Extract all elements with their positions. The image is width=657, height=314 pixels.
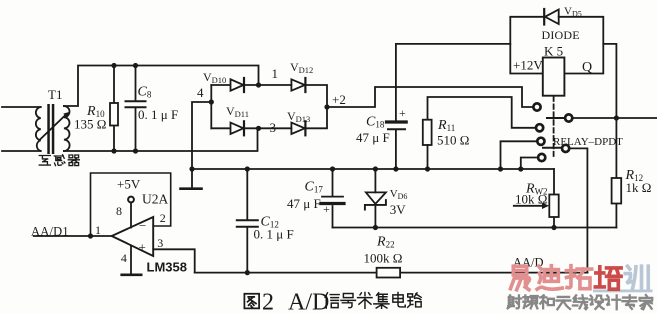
diode VD5 flyback loop box [510,17,603,74]
node dot C18 bottom [393,166,398,171]
op-amp U2A triangle [112,217,154,256]
relay contact circle 3 [501,138,545,169]
node dot C12 top [245,166,250,171]
svg-text:RELAY–DPDT: RELAY–DPDT [553,136,623,148]
transformer T1 core [47,104,54,154]
relay contact circle 1 [533,103,540,110]
wire common2 down to AA/D line [570,148,588,272]
wire R11 top to relay contact 2 [428,97,536,128]
diode VD11 [211,121,258,135]
wire op-amp pin4 to ground [130,246,132,275]
svg-text:+: + [139,240,146,255]
wire op-amp output AA/D1 [34,235,112,237]
zener diode VD6 [365,169,386,228]
svg-text:10k Ω: 10k Ω [515,192,547,207]
watermark she-pin-he-tian-xian-she-ji-zhuan-jia (RF and antenna design experts) [508,295,653,309]
svg-text:DIODE: DIODE [542,28,580,42]
node dot op-amp output [88,233,93,238]
wire 3V node horizontal [333,227,617,229]
diode VD13 [259,107,328,135]
svg-text:135 Ω: 135 Ω [74,117,106,132]
svg-text:510 Ω: 510 Ω [437,133,469,148]
relay contact circle 2 [536,124,543,131]
svg-text:1k Ω: 1k Ω [626,180,652,195]
svg-text:0. 1 μ F: 0. 1 μ F [138,107,178,122]
svg-text:47 μ F: 47 μ F [356,130,390,145]
svg-text:3: 3 [157,236,163,250]
diode VD12 [259,78,328,107]
op-amp U2A feedback loop wire [91,173,171,236]
node dot R10 top [111,63,116,68]
svg-text:1: 1 [95,223,101,237]
node dot VD6 top [373,166,378,171]
wire primary top lead [2,106,41,108]
svg-text:U2A: U2A [142,191,168,206]
wire secondary top to top rail [64,66,259,107]
node dot C8 top [133,63,138,68]
node +2 dot [324,104,329,109]
ground rail [192,168,554,170]
resistor R12 [612,118,622,228]
caption xin-hao-cai-ji-dian-lu (signal acquisition circuit) [325,292,421,308]
svg-text:3: 3 [270,120,277,135]
resistor R22 [377,268,401,278]
label hu-gan-qi (current transformer) [39,155,79,166]
wire op-amp pin3 to AA/D line [153,249,195,272]
capacitor C8 [126,66,146,152]
svg-text:+2: +2 [332,92,346,107]
WATERMARK [508,266,653,310]
svg-text:+: + [323,202,330,216]
node dot C8 bottom [133,148,138,153]
svg-text:K 5: K 5 [544,44,563,59]
node dot R12 top [614,115,619,120]
node dot C12 bottom [245,270,250,275]
wire secondary bottom rail to node 3 [64,128,258,151]
relay contact circle 4 [521,154,546,169]
svg-text:4: 4 [197,85,204,100]
transformer adjust arrow [40,112,69,140]
potentiometer RW2 [514,169,559,228]
diode VD5 [544,9,559,25]
diode VD10 [211,78,258,92]
wire node 4 left stub and ground drop [192,102,211,189]
svg-text:47 μ F: 47 μ F [287,196,321,211]
wire common1 to right edge [573,117,657,119]
node 1 dot [256,82,261,87]
svg-text:+5V: +5V [117,177,141,192]
node 3 dot [256,126,261,131]
svg-text:Q: Q [582,60,592,75]
node dot C17 top [330,166,335,171]
capacitor C18 [387,122,407,169]
svg-text:3V: 3V [390,202,407,217]
node 4 dot [209,99,214,104]
wire primary bottom lead [2,150,41,152]
wire Q tap to R12 node [603,44,616,118]
svg-text:100k Ω: 100k Ω [364,251,403,266]
wire bridge node4 vertical [210,85,212,128]
svg-text:−: − [139,218,146,233]
relay pole 2 armature and common [543,145,569,152]
capacitor C17 [321,169,344,228]
+5V terminal circle [128,197,134,228]
CAPTION [244,290,421,314]
node dot RW2 bottom [551,225,556,230]
node dot VD6 bottom [373,225,378,230]
wire AA/D line [195,272,588,274]
node dot contact3 rail [498,166,503,171]
capacitor C12 [237,169,258,273]
ground symbol op-amp [122,273,142,276]
svg-text:A/D: A/D [288,290,329,314]
caption tu 2 (figure 2) [244,294,259,309]
node dot contact4 rail [518,166,523,171]
wire +2 output to relay contact 1 [327,87,533,107]
svg-text:2: 2 [262,290,274,314]
svg-text:0. 1 μ F: 0. 1 μ F [254,227,294,242]
svg-text:LM358: LM358 [147,259,187,274]
watermark underline [593,290,653,293]
svg-text:AA/D1: AA/D1 [31,224,69,238]
relay pole 1 armature and common [547,114,572,121]
resistor R10 [110,66,118,152]
ground symbol left [181,187,202,190]
node dot R10 bottom [111,148,116,153]
svg-text:1: 1 [272,66,279,81]
node dot ground rail left end [189,166,194,171]
relay actuation dashed link [553,97,555,157]
watermark yi-di-tuo-pei-xun (training logo) [510,266,648,290]
svg-text:T1: T1 [48,87,62,102]
relay coil K5 [543,58,565,96]
transformer T1 secondary winding [64,106,70,151]
svg-text:4: 4 [121,251,127,265]
svg-text:2: 2 [160,211,166,225]
wire C18 plus lead up and over to +12V [396,44,510,121]
svg-text:+12V: +12V [513,58,543,73]
svg-text:8: 8 [116,204,122,218]
resistor R11 [423,120,432,169]
svg-text:+: + [399,106,406,120]
node dot R11 bottom [425,166,430,171]
transformer T1 primary winding [36,107,41,151]
